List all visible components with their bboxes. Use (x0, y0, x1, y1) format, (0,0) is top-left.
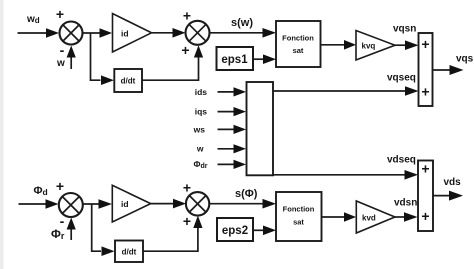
summing junction S1 (60, 22, 83, 45)
svg-text:sat: sat (293, 218, 304, 227)
wire ws (218, 128, 235, 130)
wire S4 to sat2 (209, 203, 263, 205)
arrowhead into d/dt (top) (101, 75, 114, 85)
arrowhead phi-r up (67, 218, 76, 230)
wire w input (70, 57, 72, 69)
summing junction S4 (186, 192, 209, 215)
summing junction S2 (186, 21, 210, 45)
arrowhead into kvq (344, 40, 356, 50)
wire sat1 to kvq (321, 44, 345, 46)
svg-text:d/dt: d/dt (122, 248, 137, 257)
svg-text:ws: ws (193, 124, 206, 134)
svg-text:Fonction: Fonction (283, 205, 315, 214)
svg-text:kvq: kvq (362, 42, 376, 51)
svg-text:+: + (181, 42, 189, 58)
adder box 2 (418, 161, 433, 232)
svg-text:+: + (421, 84, 429, 100)
arrowhead up into S2 (194, 45, 203, 57)
arrowhead into S4 left (173, 199, 186, 209)
arrowhead into d/dt (bottom) (102, 246, 115, 256)
summing junction S3 (59, 193, 83, 217)
arrowhead eps2 (263, 226, 276, 236)
svg-text:id: id (121, 199, 129, 209)
svg-text:vqs: vqs (456, 54, 474, 65)
wire eps2 to sat2 (253, 229, 264, 231)
wire wd input (18, 32, 48, 34)
svg-text:vdseq: vdseq (387, 155, 416, 166)
block d/dt (bottom) (115, 241, 143, 263)
svg-text:+: + (421, 208, 429, 224)
svg-text:vqsn: vqsn (393, 24, 416, 35)
svg-text:kvd: kvd (362, 214, 376, 223)
wire kvd to adder2 (395, 216, 404, 218)
arrowhead vds (449, 191, 463, 201)
svg-text:id: id (121, 29, 129, 39)
arrowhead into sat2 top input (263, 199, 277, 209)
svg-text:w: w (196, 144, 204, 154)
gain triangle id (bottom) (112, 185, 150, 222)
arrowhead iqs (234, 107, 247, 116)
arrowhead into sat1 top input (263, 28, 277, 38)
wire phi-dr (218, 163, 235, 165)
svg-text:vds: vds (444, 177, 462, 188)
wire vds output (433, 195, 450, 197)
arrowhead phi-d (46, 199, 59, 209)
wire eps1 to sat1 (253, 58, 264, 60)
block Fonction sat 2 (276, 192, 322, 241)
arrowhead vdsn (404, 212, 418, 222)
svg-text:+: + (183, 8, 191, 24)
wire kvq to adder1 (395, 44, 405, 46)
svg-text:+: + (183, 180, 191, 196)
arrowhead w middle (234, 144, 247, 153)
svg-text:-: - (60, 42, 65, 58)
arrowhead into gain id2 (99, 199, 113, 209)
wire S2 to sat1 (210, 32, 264, 34)
arrowhead w up (67, 46, 76, 58)
wire branch to d/dt (bottom) (92, 204, 101, 251)
gain triangle id (top) (113, 14, 152, 53)
wire d/dt to S2 (142, 58, 199, 81)
svg-text:eps1: eps1 (221, 54, 248, 66)
arrowhead phi-dr (234, 160, 247, 169)
wire gain id2 to S4 (151, 203, 173, 205)
arrowhead vqseq (405, 86, 419, 96)
wire phi-d input (19, 203, 47, 205)
svg-text:eps2: eps2 (222, 225, 248, 237)
svg-text:w: w (56, 58, 65, 69)
svg-text:d/dt: d/dt (121, 77, 136, 86)
wire vqseq (273, 90, 405, 92)
wire gain id to S2 (152, 32, 173, 34)
wire w middle (218, 148, 235, 150)
svg-text:+: + (183, 213, 191, 229)
arrowhead vdseq (405, 170, 419, 180)
block eps1 (217, 47, 254, 70)
arrowhead eps1 (263, 54, 276, 64)
wire ids (218, 91, 235, 93)
svg-text:s(Φ): s(Φ) (235, 188, 258, 200)
wire branch to d/dt (top) (91, 33, 101, 80)
arrowhead ws (234, 125, 247, 134)
svg-text:+: + (56, 178, 64, 194)
svg-text:ids: ids (195, 87, 208, 97)
block d/dt (top) (114, 69, 142, 92)
arrowhead into gain id (100, 28, 113, 38)
arrowhead wd (46, 28, 59, 38)
block Fonction sat 1 (276, 21, 321, 67)
wire vdseq (273, 174, 405, 176)
arrowhead up into S4 (193, 216, 202, 229)
svg-text:sat: sat (293, 46, 304, 55)
svg-text:+: + (421, 36, 429, 52)
svg-text:s(w): s(w) (231, 17, 253, 29)
wire sat2 to kvd (322, 216, 345, 218)
arrowhead into S2 left (173, 28, 186, 38)
adder box 1 (419, 33, 433, 106)
coupling block (middle) (247, 82, 274, 175)
arrowhead vqs (450, 65, 464, 75)
svg-text:+: + (421, 161, 429, 177)
gain triangle kvd (356, 201, 395, 233)
svg-text:vqseq: vqseq (387, 73, 416, 84)
left scan margin (0, 0, 4, 269)
svg-text:iqs: iqs (195, 107, 208, 117)
wire phi-r input (70, 230, 72, 241)
gain triangle kvq (356, 31, 395, 61)
svg-text:wd: wd (26, 14, 40, 25)
svg-text:Φd: Φd (34, 185, 48, 197)
svg-text:vdsn: vdsn (394, 198, 417, 209)
arrowhead into kvd (344, 212, 356, 222)
wire S3 to gain id2 (83, 203, 99, 205)
svg-text:+: + (56, 6, 64, 22)
wire vqs output (433, 69, 451, 71)
wire S1 to gain id (83, 32, 101, 34)
arrowhead vqsn (405, 40, 419, 50)
block eps2 (217, 218, 253, 241)
arrowhead ids (234, 87, 247, 96)
wire iqs (218, 111, 235, 113)
svg-text:Fonction: Fonction (282, 34, 314, 43)
wire d/dt2 to S4 (143, 228, 198, 251)
